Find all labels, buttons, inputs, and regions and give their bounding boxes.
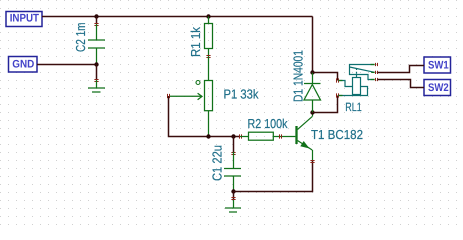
pin marks C2 pin1 — [94, 24, 98, 26]
svg-text:C2 1m: C2 1m — [73, 23, 88, 53]
wire INPUT top rail — [42, 16, 313, 18]
junction C2 bottom — [94, 62, 98, 66]
wire GND to C2 bottom — [37, 64, 97, 66]
pin marks ground 2 — [231, 198, 235, 200]
svg-text:C1 22u: C1 22u — [210, 145, 225, 181]
relay RL1 contacts — [350, 65, 375, 80]
capacitor C1 — [224, 152, 241, 192]
wire P1 wiper down and right — [169, 96, 241, 137]
ground symbol (C2) — [88, 80, 105, 92]
pin marks RL1 coil pin1 — [337, 78, 339, 82]
svg-text:INPUT: INPUT — [10, 13, 40, 25]
pin marks T1 emitter — [310, 161, 314, 163]
svg-text:R1 1k: R1 1k — [188, 27, 203, 57]
wire relay to SW2 — [378, 80, 425, 88]
svg-text:D1 1N4001: D1 1N4001 — [291, 50, 306, 102]
pin marks R1/P1 junction — [206, 56, 210, 58]
junction C1 bottom — [231, 189, 235, 193]
junction C1 top — [231, 134, 235, 138]
junction C2 top — [94, 14, 98, 18]
svg-text:SW1: SW1 — [428, 59, 449, 71]
pin marks RL1 contact top — [376, 63, 378, 66]
wire top rail down to diode/relay node — [312, 17, 314, 73]
potentiometer P1 — [205, 56, 213, 137]
transistor T1 — [297, 113, 313, 161]
pin marks R2 right — [280, 134, 282, 138]
diode D1 — [304, 73, 321, 113]
junction R1 top — [206, 14, 210, 18]
svg-text:R2 100k: R2 100k — [248, 116, 288, 131]
pin marks RL1 contact middle — [376, 71, 378, 74]
pin marks RL1 coil pin2 — [337, 93, 339, 97]
svg-text:GND: GND — [12, 59, 34, 71]
wire C2 bottom to ground — [96, 65, 98, 81]
wire emitter rail — [234, 160, 313, 192]
wire D1 top to relay coil pin 1 — [313, 73, 338, 81]
relay pin stubs (green) — [339, 65, 375, 96]
relay RL1 coil — [339, 78, 368, 96]
pin marks P1 wiper — [168, 94, 170, 98]
capacitor C2 — [88, 24, 105, 65]
junction D1 top — [310, 70, 314, 74]
resistor R1 — [205, 17, 213, 57]
pin marks C1 pin1 — [231, 153, 235, 155]
pin marks RL1 contact bottom — [376, 78, 378, 81]
node INPUT label box — [6, 12, 42, 27]
wire C2 top stub — [96, 17, 98, 25]
svg-text:T1 BC182: T1 BC182 — [311, 127, 363, 142]
P1 wiper arrow — [169, 93, 202, 100]
node GND label box — [9, 57, 38, 73]
T1 emitter arrow — [300, 141, 309, 149]
junction D1 bottom — [310, 110, 314, 114]
wire D1 bottom to relay coil pin 2 — [313, 96, 338, 113]
svg-text:SW2: SW2 — [428, 82, 449, 94]
node SW2 label box — [424, 80, 451, 96]
pin marks R2 left — [240, 134, 242, 138]
wire relay to SW1 — [378, 66, 425, 73]
junction P1 bottom — [206, 134, 210, 138]
wire C1 top stub — [233, 137, 235, 153]
svg-text:P1 33k: P1 33k — [224, 87, 259, 102]
P1 wiper circle — [196, 81, 200, 85]
wire C1 bottom to ground — [233, 192, 235, 201]
ground symbol (C1) — [225, 200, 241, 212]
resistor R2 — [240, 132, 295, 140]
svg-text:RL1: RL1 — [345, 100, 362, 114]
node SW1 label box — [424, 57, 451, 73]
pin marks ground 1 — [94, 80, 98, 82]
